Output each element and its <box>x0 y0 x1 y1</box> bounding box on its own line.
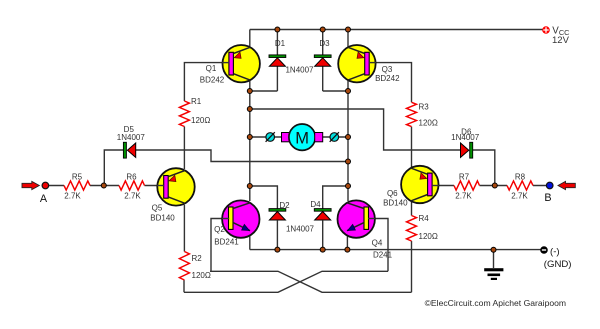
svg-text:(-): (-) <box>550 246 560 257</box>
wire Q1 emitter to rail <box>249 30 251 49</box>
wire D1 top and bottom leads <box>250 30 278 92</box>
wire node motor-left to D6 anode <box>250 109 461 150</box>
wire D5 anode to node motor-right <box>136 150 348 162</box>
wire Q2 base <box>211 219 229 272</box>
wire Q1 base overlay <box>222 62 229 64</box>
junction motor left terminal <box>247 135 252 140</box>
svg-text:120Ω: 120Ω <box>419 232 438 241</box>
svg-text:Q6: Q6 <box>387 189 398 198</box>
wire emitter/ground row to minus terminal <box>250 249 541 251</box>
terminal A <box>42 182 49 189</box>
wire input A row <box>49 185 165 187</box>
wire ground stub <box>493 250 495 268</box>
diode D6 1N4007 pointing right <box>461 143 469 157</box>
svg-text:12V: 12V <box>552 35 570 46</box>
wire A junction up to D5 cathode <box>104 150 123 186</box>
wire Q2 emitter down <box>249 231 251 250</box>
resistor R5 2.7K <box>64 181 90 190</box>
junction D4 anode at emitter line <box>320 247 325 252</box>
svg-text:2.7K: 2.7K <box>511 191 528 200</box>
svg-text:Q3: Q3 <box>382 65 393 74</box>
transistor Q6 BD140 PNP <box>401 166 438 203</box>
svg-text:D2: D2 <box>279 201 290 210</box>
diode D4 1N4007 <box>314 209 331 212</box>
junction D2 anode at emitter line <box>275 247 280 252</box>
terminal B <box>546 182 553 189</box>
svg-text:BD140: BD140 <box>383 199 408 208</box>
svg-text:1N4007: 1N4007 <box>285 65 314 74</box>
svg-text:1N4007: 1N4007 <box>117 133 146 142</box>
transistor Q3 BD242 PNP <box>338 45 375 82</box>
svg-text:BD242: BD242 <box>200 76 225 85</box>
svg-text:120Ω: 120Ω <box>191 116 210 125</box>
wire Q4 base overlay <box>368 218 375 220</box>
svg-text:BD241: BD241 <box>214 238 239 247</box>
terminal minus GND <box>540 246 548 254</box>
svg-text:1N4007: 1N4007 <box>286 224 315 233</box>
junction D3 cathode at VCC rail <box>320 27 325 32</box>
junction ground tap <box>491 247 496 252</box>
svg-text:2.7K: 2.7K <box>124 191 141 200</box>
wire Q4 base <box>368 219 388 272</box>
resistor R4 120ohm <box>407 216 417 242</box>
wire Q5 base overlay <box>157 185 164 187</box>
svg-text:Q2: Q2 <box>214 225 225 234</box>
junction D1 cathode at VCC rail <box>275 27 280 32</box>
svg-text:R1: R1 <box>191 97 202 106</box>
diode D3 1N4007 <box>314 55 331 58</box>
wire D2 anode lead <box>276 221 278 250</box>
wire Q3 base to R3 <box>368 63 412 103</box>
diode D5 1N4007 pointing left <box>123 142 126 158</box>
svg-text:Q5: Q5 <box>152 203 163 212</box>
svg-text:D1: D1 <box>275 39 286 48</box>
junction node A to D5 cathode <box>101 183 106 188</box>
resistor R1 120ohm <box>179 101 189 127</box>
svg-text:D3: D3 <box>319 39 330 48</box>
wire cross upper-left to lower-right <box>210 271 412 292</box>
wire R3 to Q6 emitter <box>411 127 413 169</box>
junction Q4 emitter at emitter line <box>345 247 350 252</box>
wire Q1 collector down to Q2 collector <box>249 80 251 202</box>
svg-text:Q1: Q1 <box>206 64 217 73</box>
svg-text:(GND): (GND) <box>544 259 572 270</box>
junction D4 cathode at Q4 collector <box>346 184 351 189</box>
wire Q4 emitter down <box>346 231 348 250</box>
transistor Q2 BD241 NPN <box>222 200 259 237</box>
wire top rail <box>250 29 545 31</box>
wire D4 anode lead <box>322 221 324 250</box>
wire Q3 emitter to rail <box>347 30 349 49</box>
wire Q6 base overlay <box>432 185 439 187</box>
transistor Q5 BD140 PNP <box>157 168 194 205</box>
wire Q3 collector down to Q4 collector <box>347 80 349 202</box>
junction Q3 emitter at VCC rail <box>346 27 351 32</box>
svg-text:R3: R3 <box>419 103 430 112</box>
terminal VCC 12V <box>542 26 550 34</box>
svg-text:R5: R5 <box>72 173 83 182</box>
wire motor row <box>250 136 348 138</box>
resistor R3 120ohm <box>407 102 417 126</box>
junction D3 anode at Q3 collector <box>346 89 351 94</box>
junction D2 cathode at Q2 collector <box>247 184 252 189</box>
resistor R2 120ohm <box>179 252 189 281</box>
transistor Q4 D241 NPN <box>338 200 375 237</box>
motor terminal symbol right <box>330 133 339 142</box>
svg-text:R7: R7 <box>459 173 470 182</box>
svg-text:A: A <box>40 193 48 205</box>
wire D6 cathode to B junction <box>473 150 495 186</box>
svg-text:M: M <box>295 130 309 148</box>
wire Q5 collector through R2 to cross <box>183 205 185 292</box>
wire cross lower-left to upper-right <box>184 271 388 292</box>
svg-text:R2: R2 <box>192 254 203 263</box>
resistor R7 2.7K <box>454 181 480 190</box>
svg-text:R8: R8 <box>515 172 526 181</box>
input arrow B <box>558 181 575 189</box>
junction node B to D6 cathode <box>492 183 497 188</box>
wire D2 cathode lead <box>250 186 278 209</box>
motor terminal symbol left <box>266 133 275 142</box>
motor M1 <box>289 124 315 150</box>
wire Q1 base to R1 <box>184 63 229 101</box>
svg-text:BD140: BD140 <box>150 214 175 223</box>
junction node motor-left to D6 <box>247 107 252 112</box>
transistor Q1 BD242 PNP <box>223 45 260 82</box>
diode D1 1N4007 <box>269 55 286 58</box>
motor brush left <box>282 133 290 142</box>
svg-text:D4: D4 <box>310 200 321 209</box>
wire D4 cathode lead <box>323 186 348 209</box>
svg-text:2.7K: 2.7K <box>64 191 81 200</box>
junction D5 anode at node motor-right <box>346 159 351 164</box>
motor brush right <box>315 133 323 142</box>
junction D1 anode at Q1 collector <box>247 89 252 94</box>
svg-text:R6: R6 <box>126 173 137 182</box>
svg-text:R4: R4 <box>419 214 430 223</box>
diode D2 1N4007 <box>269 209 286 212</box>
wire Q6 collector through R4 to cross <box>411 196 413 292</box>
svg-text:D241: D241 <box>373 250 393 259</box>
resistor R6 2.7K <box>119 181 145 190</box>
svg-text:120Ω: 120Ω <box>419 119 438 128</box>
svg-text:B: B <box>544 192 551 204</box>
wire Q2 base overlay <box>222 218 229 220</box>
svg-text:©ElecCircuit.com Apichet Garai: ©ElecCircuit.com Apichet Garaipoom <box>425 298 566 308</box>
junction motor right terminal <box>346 135 351 140</box>
svg-text:2.7K: 2.7K <box>455 191 472 200</box>
wire R1 to Q5 emitter <box>183 127 185 170</box>
ground <box>484 268 503 271</box>
svg-text:1N4007: 1N4007 <box>451 133 480 142</box>
svg-text:BD242: BD242 <box>375 74 400 83</box>
svg-text:Q4: Q4 <box>372 239 383 248</box>
svg-text:120Ω: 120Ω <box>192 271 211 280</box>
wire D3 top and bottom leads <box>323 30 348 92</box>
resistor R8 2.7K <box>507 181 533 190</box>
input arrow A <box>22 181 39 189</box>
wire input B row <box>432 185 547 187</box>
wire Q3 base overlay <box>369 62 376 64</box>
